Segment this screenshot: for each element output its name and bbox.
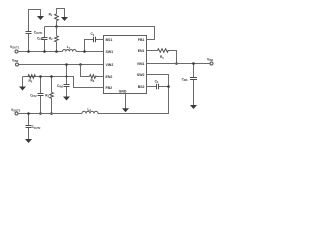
- svg-text:R4: R4: [45, 93, 49, 98]
- svg-text:SW1: SW1: [106, 50, 114, 54]
- svg-text:COUT1: COUT1: [34, 30, 43, 35]
- svg-text:FB1: FB1: [138, 38, 145, 42]
- capacitor COUT1 (top): [26, 10, 45, 53]
- svg-text:CIN2: CIN2: [57, 84, 64, 89]
- resistor R1 (FB1 to GND): [49, 9, 68, 27]
- capacitor C4 bootstrap 2: [147, 80, 170, 90]
- svg-text:GND: GND: [119, 89, 127, 93]
- svg-text:VIN2: VIN2: [106, 63, 114, 67]
- svg-text:EN1: EN1: [138, 49, 145, 53]
- resistor R5 (EN1): [147, 49, 178, 65]
- svg-text:VIN1: VIN1: [207, 58, 214, 63]
- node VIN1 terminal: [207, 58, 214, 66]
- svg-text:CFF2: CFF2: [30, 93, 37, 98]
- inductor L2: [82, 111, 98, 113]
- wire FB2 net: [23, 77, 104, 88]
- capacitor CIN1: [182, 62, 197, 109]
- svg-text:C3: C3: [91, 32, 95, 37]
- svg-text:R1: R1: [49, 12, 53, 17]
- capacitor CIN2 (VIN2 to GND): [57, 63, 70, 100]
- svg-text:CFF1: CFF1: [37, 36, 44, 41]
- svg-text:VIN1: VIN1: [137, 62, 145, 66]
- svg-text:C4: C4: [155, 80, 159, 85]
- capacitor COUT2 (bottom): [25, 112, 41, 143]
- svg-text:COUT2: COUT2: [32, 125, 41, 130]
- svg-text:BS1: BS1: [106, 38, 113, 42]
- capacitor CFF1: [37, 27, 48, 53]
- svg-text:BS2: BS2: [138, 85, 145, 89]
- resistor R6 (EN2): [81, 65, 104, 84]
- node VOUT2 terminal: [11, 108, 21, 115]
- svg-text:L1: L1: [67, 45, 71, 50]
- op-amp U1: [104, 36, 147, 94]
- svg-text:R5: R5: [160, 55, 164, 60]
- svg-text:FB2: FB2: [106, 86, 113, 90]
- wire VOUT2 rail to SW2: [18, 75, 169, 114]
- node VIN2 terminal: [12, 59, 19, 67]
- svg-text:R2: R2: [49, 36, 53, 41]
- wire VOUT1 rail to SW1: [18, 51, 104, 53]
- wire FB1 line: [45, 27, 155, 40]
- svg-text:R6: R6: [91, 79, 95, 84]
- ground (FB2 divider): [19, 77, 26, 91]
- resistor R2 (VOUT1 to FB1): [49, 27, 59, 53]
- wire VIN1 line: [147, 63, 211, 65]
- svg-text:SW2: SW2: [137, 73, 145, 77]
- wire VIN2 line: [18, 64, 103, 66]
- ground (IC GND): [122, 94, 129, 113]
- svg-text:R3: R3: [29, 79, 33, 84]
- svg-text:VOUT1: VOUT1: [10, 45, 20, 50]
- inductor L1: [63, 50, 77, 52]
- svg-text:EN2: EN2: [106, 75, 113, 79]
- svg-text:VOUT2: VOUT2: [11, 108, 21, 113]
- capacitor C3 bootstrap 1: [83, 32, 103, 53]
- node VOUT1 terminal: [10, 45, 20, 53]
- capacitor CFF2: [30, 75, 43, 115]
- resistor R3 (FB2 to GND, in line): [28, 75, 36, 84]
- resistor R4 (VOUT2 to FB2): [45, 75, 53, 115]
- svg-text:CIN1: CIN1: [182, 78, 189, 83]
- svg-text:VIN2: VIN2: [12, 59, 19, 64]
